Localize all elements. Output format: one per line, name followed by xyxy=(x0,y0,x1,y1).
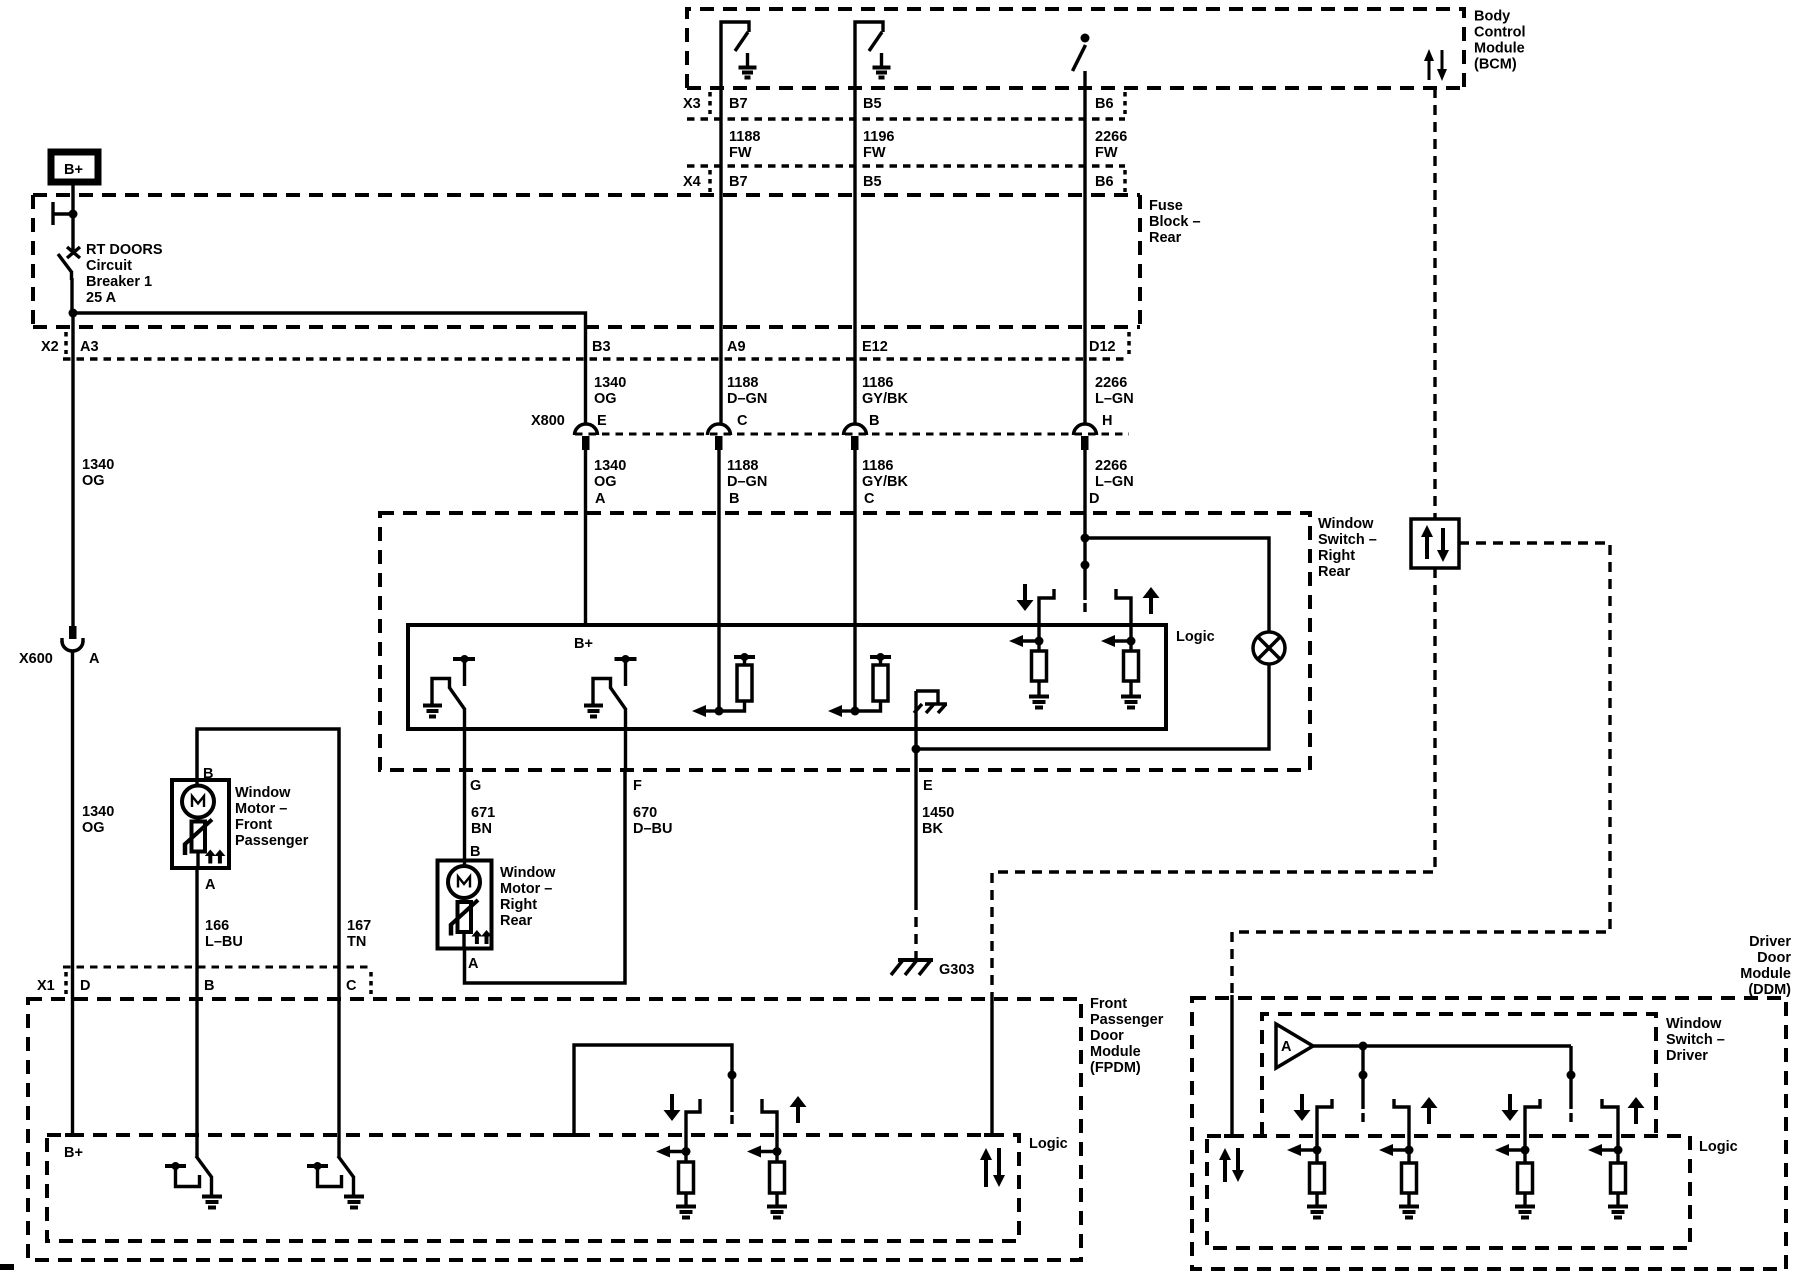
svg-text:B+: B+ xyxy=(574,636,593,652)
svg-text:B: B xyxy=(869,413,879,429)
svg-text:1450: 1450 xyxy=(922,805,954,821)
svg-text:(FPDM): (FPDM) xyxy=(1090,1060,1141,1076)
connector X800 row line xyxy=(575,433,1129,436)
connector X3 right tick xyxy=(1123,92,1127,114)
svg-text:BN: BN xyxy=(471,821,492,837)
SEC_X800 xyxy=(62,626,371,999)
connector X1 label tick xyxy=(64,972,68,994)
svg-text:FW: FW xyxy=(863,145,886,161)
switch S3 in BCM (circuit 2266) xyxy=(1073,34,1090,89)
switch S1 in BCM to ground (circuit 1188) xyxy=(721,22,757,88)
wire 1340 OG : pin A3 down left column xyxy=(71,327,74,626)
up arrow (window up) xyxy=(1143,587,1160,614)
svg-text:X3: X3 xyxy=(683,96,701,112)
down arrow (window down) xyxy=(1017,584,1034,611)
wire: D to lamp feed xyxy=(1085,538,1269,632)
svg-text:Rear: Rear xyxy=(1318,564,1351,580)
amplifier A xyxy=(1276,1024,1313,1068)
svg-text:1188: 1188 xyxy=(729,129,760,145)
svg-text:D12: D12 xyxy=(1089,339,1116,355)
wire: switch SW-F pole to pin F xyxy=(624,708,627,770)
svg-text:RT DOORS: RT DOORS xyxy=(86,242,163,258)
svg-text:1186: 1186 xyxy=(862,375,893,391)
switch pole P1 (DDM left) xyxy=(1359,1042,1368,1123)
wire 2266 L-GN D : X800 to window switch xyxy=(1083,450,1086,600)
svg-text:Logic: Logic xyxy=(1699,1139,1738,1155)
svg-text:GY/BK: GY/BK xyxy=(862,391,908,407)
wire: amplifier output bus xyxy=(1313,1044,1571,1047)
svg-text:B3: B3 xyxy=(592,339,611,355)
svg-text:1340: 1340 xyxy=(82,457,114,473)
svg-text:D–BU: D–BU xyxy=(633,821,672,837)
svg-text:BK: BK xyxy=(922,821,943,837)
resistor R-C with junction arrow (wire C) xyxy=(828,653,891,717)
connector X2 row separator xyxy=(63,357,1129,360)
connector X1 row separator xyxy=(63,966,371,969)
down arrow in icon xyxy=(1437,528,1449,562)
svg-text:D–GN: D–GN xyxy=(727,474,767,490)
svg-text:X800: X800 xyxy=(531,413,565,429)
wire: breaker output to pin B3 xyxy=(73,313,586,327)
svg-text:B6: B6 xyxy=(1095,174,1114,190)
label: Window Switch - Driver xyxy=(1666,1016,1725,1064)
module box: Body Control Module (BCM) dashed outline xyxy=(687,9,1464,88)
connector X3 row separator xyxy=(687,117,1125,120)
svg-text:A: A xyxy=(205,877,216,893)
wire D junction node xyxy=(1081,534,1090,543)
svg-text:A: A xyxy=(89,651,100,667)
switch SW-G (window down contact to ground) xyxy=(423,655,475,717)
svg-text:A: A xyxy=(1281,1039,1292,1055)
svg-text:Window: Window xyxy=(1318,516,1374,532)
lamp (illumination) xyxy=(1253,632,1285,664)
svg-text:A: A xyxy=(468,956,479,972)
connector X4 row separator xyxy=(687,164,1125,167)
svg-text:Window: Window xyxy=(1666,1016,1722,1032)
page mark xyxy=(0,1264,14,1270)
svg-text:2266: 2266 xyxy=(1095,458,1127,474)
svg-text:G: G xyxy=(470,778,481,794)
label: Front Passenger Door Module (FPDM) xyxy=(1090,996,1164,1076)
switch pole P2 (DDM right) xyxy=(1567,1046,1576,1122)
svg-text:OG: OG xyxy=(594,474,617,490)
svg-text:X1: X1 xyxy=(37,978,55,994)
serial data switch icon box xyxy=(1411,519,1459,568)
svg-text:E: E xyxy=(597,413,607,429)
svg-text:1340: 1340 xyxy=(594,375,626,391)
switch pole break (FPDM) xyxy=(730,1115,733,1124)
svg-text:Switch –: Switch – xyxy=(1666,1032,1725,1048)
svg-text:1340: 1340 xyxy=(594,458,626,474)
SEC_FUSE xyxy=(63,92,1129,359)
serial data arrows (FPDM) xyxy=(980,1148,992,1187)
svg-text:FW: FW xyxy=(729,145,752,161)
wire 166 L-BU : X1 B up to motor A xyxy=(195,868,198,999)
wire: breaker down to X2 pin A3 xyxy=(71,313,74,327)
svg-text:Motor –: Motor – xyxy=(500,881,552,897)
switch SW-DN (down) with resistor to ground xyxy=(1009,589,1054,708)
switch S2 in BCM to ground (circuit 1196) xyxy=(855,22,891,88)
up arrow (DDM-2) xyxy=(1421,1097,1438,1124)
label: Window Motor - Right Rear xyxy=(500,865,556,929)
svg-text:A9: A9 xyxy=(727,339,746,355)
svg-text:X2: X2 xyxy=(41,339,59,355)
SEC_ROWS xyxy=(575,424,1130,711)
svg-text:Right: Right xyxy=(500,897,537,913)
svg-text:B7: B7 xyxy=(729,96,748,112)
svg-text:671: 671 xyxy=(471,805,495,821)
svg-text:1188: 1188 xyxy=(727,458,758,474)
svg-text:L–BU: L–BU xyxy=(205,934,243,950)
wire: X1 D (B+) to logic box xyxy=(71,999,74,1135)
down arrow (DDM-1) xyxy=(1294,1094,1311,1121)
svg-text:X600: X600 xyxy=(19,651,53,667)
svg-text:B7: B7 xyxy=(729,174,748,190)
connector X4 right tick xyxy=(1123,170,1127,192)
svg-text:25 A: 25 A xyxy=(86,290,117,306)
svg-text:Door: Door xyxy=(1090,1028,1124,1044)
SEC_BCM xyxy=(33,152,1140,327)
svg-text:GY/BK: GY/BK xyxy=(862,474,908,490)
wire 2266 FW : BCM S3 to X800 xyxy=(1083,88,1086,425)
svg-text:B: B xyxy=(204,978,214,994)
svg-text:2266: 2266 xyxy=(1095,375,1127,391)
svg-text:Circuit: Circuit xyxy=(86,258,132,274)
module box: Driver Door Module (DDM) dashed outline xyxy=(1192,998,1786,1269)
svg-text:A: A xyxy=(595,491,606,507)
logic box (FPDM) dashed xyxy=(47,1135,1019,1241)
svg-text:OG: OG xyxy=(82,820,105,836)
SEC_FPDM xyxy=(1192,995,1786,1269)
module box: Front Passenger Door Module (FPDM) dashed outline xyxy=(28,999,1081,1260)
svg-text:Switch –: Switch – xyxy=(1318,532,1377,548)
module box: Window Switch - Driver dashed outline xyxy=(1262,1014,1656,1136)
svg-text:1188: 1188 xyxy=(727,375,758,391)
wire to G303 (dashed splice) xyxy=(914,900,917,958)
serial data wire : icon to DDM (dashed) xyxy=(1232,543,1610,995)
serial data arrows (DDM) xyxy=(1219,1148,1231,1182)
svg-text:Rear: Rear xyxy=(1149,230,1182,246)
wire bridge to switch pole (FPDM) xyxy=(574,1045,732,1135)
svg-text:Door: Door xyxy=(1757,950,1791,966)
switch DDM-2 (left up) with resistor to ground xyxy=(1379,1099,1419,1218)
label: Driver Door Module (DDM) xyxy=(1740,934,1791,998)
svg-text:1186: 1186 xyxy=(862,458,893,474)
svg-text:Control: Control xyxy=(1474,25,1526,41)
svg-text:C: C xyxy=(737,413,748,429)
logic box (DDM) dashed xyxy=(1207,1136,1690,1248)
wire: chassis ground to pin E with lamp return junction xyxy=(914,691,917,770)
svg-text:C: C xyxy=(346,978,357,994)
svg-text:Module: Module xyxy=(1740,966,1791,982)
svg-text:2266: 2266 xyxy=(1095,129,1127,145)
logic box (window switch right rear) xyxy=(408,625,1166,729)
svg-text:D–GN: D–GN xyxy=(727,391,767,407)
label M inside motor M1 xyxy=(192,796,204,807)
svg-text:Logic: Logic xyxy=(1029,1136,1068,1152)
wire G : window switch pin G down to motor M2 xyxy=(463,770,466,861)
module box: Window Switch - Right Rear dashed outline xyxy=(380,513,1310,770)
circuit breaker RT DOORS Circuit Breaker 1 25 A xyxy=(53,202,80,318)
svg-text:D: D xyxy=(80,978,90,994)
SEC_WSRR xyxy=(172,729,933,999)
up arrow (FPDM) xyxy=(790,1096,807,1123)
serial data wire : icon to FPDM (dashed) xyxy=(992,568,1435,999)
SEC_MOTORS xyxy=(992,88,1610,999)
switch DDM-3 (right down) with resistor to ground xyxy=(1495,1099,1540,1218)
svg-text:D: D xyxy=(1089,491,1099,507)
svg-text:167: 167 xyxy=(347,918,371,934)
connector X800 terminal E xyxy=(575,424,598,450)
ground G303 chassis symbol xyxy=(891,960,933,975)
svg-text:B+: B+ xyxy=(64,162,83,178)
wire: B+ to circuit breaker xyxy=(71,182,74,250)
connector X2 right tick xyxy=(1127,332,1131,354)
svg-text:B: B xyxy=(470,844,480,860)
svg-text:A3: A3 xyxy=(80,339,99,355)
svg-text:166: 166 xyxy=(205,918,229,934)
svg-text:Passenger: Passenger xyxy=(235,833,309,849)
svg-text:1340: 1340 xyxy=(82,804,114,820)
label: Body Control Module (BCM) xyxy=(1474,9,1526,73)
serial data wire into FPDM logic xyxy=(990,999,993,1135)
wire: lamp return to pin E junction xyxy=(916,664,1269,749)
switch pole break (wire D) xyxy=(1083,603,1086,612)
down arrow (DDM-3) xyxy=(1502,1094,1519,1121)
connector X800 terminal H xyxy=(1074,424,1097,450)
svg-text:1196: 1196 xyxy=(863,129,894,145)
serial data wire into DDM logic xyxy=(1230,995,1233,1136)
wire 1340 OG A : X800 to window switch xyxy=(584,450,587,625)
wire: switch SW-G pole to pin G xyxy=(463,708,466,770)
svg-text:Breaker 1: Breaker 1 xyxy=(86,274,152,290)
label M inside motor M2 xyxy=(458,877,470,888)
switch SW-UP (up) with resistor to ground xyxy=(1101,589,1141,708)
connector X600 terminal A xyxy=(62,626,83,651)
wire 1340 OG : X600 to X1 pin D xyxy=(71,650,74,999)
connector X2 label tick xyxy=(64,332,68,354)
wire 1188 D-GN B : X800 to window switch xyxy=(717,450,720,711)
svg-text:Block –: Block – xyxy=(1149,214,1201,230)
switch SW-F (window up contact to ground) xyxy=(584,655,637,717)
label: Window Motor - Front Passenger xyxy=(235,785,309,849)
svg-text:F: F xyxy=(633,778,642,794)
svg-text:(BCM): (BCM) xyxy=(1474,57,1517,73)
connector X800 terminal C xyxy=(708,424,731,450)
battery feed terminal B+ xyxy=(51,152,98,182)
svg-text:B: B xyxy=(729,491,739,507)
svg-text:Module: Module xyxy=(1474,41,1525,57)
label: Fuse Block - Rear xyxy=(1149,198,1201,246)
switch FP-2 (wire C to ground) xyxy=(307,999,364,1208)
svg-text:L–GN: L–GN xyxy=(1095,391,1134,407)
svg-text:Front: Front xyxy=(235,817,272,833)
svg-text:OG: OG xyxy=(594,391,617,407)
wire 167 TN : motor B over to X1 C xyxy=(197,729,339,999)
switch FP-UP (up) with resistor to ground xyxy=(747,1099,787,1218)
svg-text:E12: E12 xyxy=(862,339,888,355)
svg-text:B+: B+ xyxy=(64,1145,83,1161)
wire F : motor M2 bottom loop to window switch pin F xyxy=(465,770,626,983)
wire 1188 FW : BCM S1 to X800 xyxy=(719,88,722,425)
up arrow in icon xyxy=(1421,525,1433,559)
svg-text:Front: Front xyxy=(1090,996,1127,1012)
connector X3 label tick xyxy=(708,92,712,114)
svg-text:B5: B5 xyxy=(863,174,882,190)
svg-text:B6: B6 xyxy=(1095,96,1114,112)
serial data arrows inside BCM xyxy=(1424,49,1447,81)
wire 1196 FW / 1186 GY-BK : BCM S2 to X800 xyxy=(853,88,856,425)
svg-text:Module: Module xyxy=(1090,1044,1141,1060)
connector X1 right tick xyxy=(369,972,373,994)
wire 1186 GY/BK C : X800 to window switch xyxy=(853,450,856,711)
connector X800 terminal B xyxy=(844,424,867,450)
up arrow (DDM-4) xyxy=(1628,1097,1645,1124)
svg-text:X4: X4 xyxy=(683,174,701,190)
svg-text:Window: Window xyxy=(500,865,556,881)
svg-text:L–GN: L–GN xyxy=(1095,474,1134,490)
label: RT DOORS Circuit Breaker 1 25 A xyxy=(86,242,163,306)
svg-text:B: B xyxy=(203,766,213,782)
svg-text:E: E xyxy=(923,778,933,794)
svg-text:Fuse: Fuse xyxy=(1149,198,1183,214)
svg-text:Rear: Rear xyxy=(500,913,533,929)
resistor R-B with junction arrow (wire B) xyxy=(692,653,755,717)
down arrow (FPDM) xyxy=(664,1094,681,1121)
switch DDM-1 (left down) with resistor to ground xyxy=(1287,1099,1332,1218)
svg-text:C: C xyxy=(864,491,875,507)
motor M2: Window Motor - Right Rear xyxy=(438,860,493,949)
svg-text:Body: Body xyxy=(1474,9,1510,25)
svg-text:670: 670 xyxy=(633,805,657,821)
svg-text:Right: Right xyxy=(1318,548,1355,564)
svg-text:Window: Window xyxy=(235,785,291,801)
svg-text:Driver: Driver xyxy=(1749,934,1791,950)
svg-text:Passenger: Passenger xyxy=(1090,1012,1164,1028)
svg-text:Logic: Logic xyxy=(1176,629,1215,645)
svg-text:B5: B5 xyxy=(863,96,882,112)
module box: Fuse Block - Rear dashed outline xyxy=(33,195,1140,327)
motor M1: Window Motor - Front Passenger xyxy=(172,780,229,868)
svg-text:H: H xyxy=(1102,413,1112,429)
SEC_SERIAL xyxy=(28,999,1081,1260)
svg-text:Driver: Driver xyxy=(1666,1048,1708,1064)
SEC_LEFT xyxy=(380,513,1310,770)
svg-text:OG: OG xyxy=(82,473,105,489)
switch FP-DN (down) with resistor to ground xyxy=(656,1099,700,1218)
label: Window Switch - Right Rear xyxy=(1318,516,1377,580)
serial data wire : BCM to window switch icon (dashed) xyxy=(1433,88,1436,519)
svg-text:Motor –: Motor – xyxy=(235,801,287,817)
svg-text:TN: TN xyxy=(347,934,366,950)
switch DDM-4 (right up) with resistor to ground xyxy=(1588,1099,1628,1218)
svg-text:(DDM): (DDM) xyxy=(1748,982,1791,998)
wire 1340 OG : pin B3 to X800 xyxy=(584,327,587,425)
svg-text:G303: G303 xyxy=(939,962,974,978)
connector X4 label tick xyxy=(708,170,712,192)
wire 1450 BK : pin E down xyxy=(914,770,917,900)
switch FP-1 (wire B to ground) xyxy=(165,999,222,1208)
svg-text:FW: FW xyxy=(1095,145,1118,161)
chassis ground inside logic box xyxy=(914,691,947,713)
